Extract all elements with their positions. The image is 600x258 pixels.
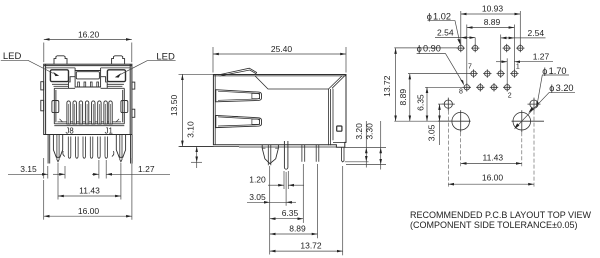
center lines dashed [448, 111, 534, 188]
LED pad L1 [457, 44, 465, 52]
right shield post [131, 135, 133, 164]
pad pin5 [483, 69, 491, 77]
svg-text:25.40: 25.40 [271, 44, 293, 54]
side pin row b [302, 145, 305, 162]
LED post hole left (1.70) [442, 98, 455, 111]
pad pin4 [490, 83, 498, 91]
dimension 2.54 right [501, 35, 546, 71]
dimension 16.00 (pcb) [448, 183, 534, 185]
svg-text:(COMPONENT SIDE TOLERANCE±0.05: (COMPONENT SIDE TOLERANCE±0.05) [410, 220, 577, 230]
contact leg 5 [98, 137, 101, 159]
pad pin8 [463, 83, 471, 91]
svg-text:2: 2 [508, 93, 512, 100]
svg-text:1.20: 1.20 [249, 175, 266, 185]
right wide shield leg [116, 135, 125, 158]
side latch slot left [52, 101, 59, 113]
svg-text:ϕ1.02: ϕ1.02 [427, 12, 451, 22]
dimension 16.20 [44, 39, 132, 62]
dimension 13.72 (pcb vertical) [394, 48, 452, 121]
svg-text:3.20: 3.20 [354, 123, 364, 140]
svg-text:13.72: 13.72 [300, 241, 322, 251]
svg-text:ϕ3.20: ϕ3.20 [549, 83, 573, 93]
front legs [48, 135, 132, 164]
svg-text:2.54: 2.54 [437, 28, 454, 38]
contact leg 6 [105, 137, 108, 159]
dimension 3.20 (side right) [345, 121, 386, 168]
LED label left [1, 51, 59, 76]
side front shield leg [262, 145, 278, 166]
svg-text:6.35: 6.35 [282, 208, 299, 218]
dimension 1.27 (pcb) [496, 58, 553, 84]
svg-text:1.27: 1.27 [533, 52, 550, 62]
pad pin2 [503, 83, 511, 91]
dimension 3.05 (pcb vertical) [438, 104, 444, 145]
dimension 8.89 (pcb vertical) [408, 74, 471, 122]
svg-text:3.30: 3.30 [364, 123, 374, 140]
dimension 3.10 (vertical) [191, 146, 202, 168]
top spring blade [219, 68, 257, 76]
dimension 11.43 (front) [58, 163, 121, 200]
shield side tab upper left [41, 82, 44, 90]
svg-text:J8: J8 [65, 127, 73, 136]
svg-text:1: 1 [516, 63, 520, 70]
dimension 11.43 (pcb) [461, 162, 522, 164]
svg-text:2.54: 2.54 [528, 28, 545, 38]
svg-text:8: 8 [459, 88, 463, 95]
side pin rear [342, 147, 345, 162]
side body outline [213, 75, 346, 148]
front view outer shield body [44, 64, 132, 134]
shield side tab lower right [132, 109, 135, 117]
EMI square hole [337, 126, 342, 131]
top latch bump right [112, 56, 125, 64]
pad pin3 [497, 69, 505, 77]
dimension 2.54 left [435, 38, 475, 45]
svg-text:3.05: 3.05 [427, 124, 437, 141]
roof bevel [255, 75, 346, 146]
LED window sills [52, 84, 124, 86]
contact leg 2 [76, 137, 79, 159]
contact leg 4 [90, 137, 93, 159]
svg-text:8.89: 8.89 [484, 17, 501, 27]
top latch bump left [54, 56, 67, 64]
center latch block [69, 68, 108, 88]
svg-text:13.72: 13.72 [382, 75, 392, 97]
dimension 6.35 (pcb vertical) [425, 87, 464, 121]
svg-text:8.89: 8.89 [398, 89, 408, 106]
dimension 8.89 (pcb) [467, 25, 515, 85]
LED window right [107, 70, 125, 82]
svg-text:11.43: 11.43 [482, 152, 503, 162]
jack mouth opening [54, 88, 124, 125]
svg-text:8.89: 8.89 [289, 224, 306, 234]
dimension 8.89 (side) [270, 164, 318, 238]
dimension 1.20 [268, 171, 304, 189]
side latch slot 1 [216, 90, 262, 102]
svg-text:6.35: 6.35 [415, 94, 425, 111]
contact leg 1 [68, 137, 71, 159]
dimension 3.30 (side right) [346, 121, 386, 170]
svg-text:1.27: 1.27 [138, 164, 155, 174]
pad pin7 [469, 69, 477, 77]
svg-text:J1: J1 [105, 127, 113, 136]
pad pin6 [476, 83, 484, 91]
svg-text:RECOMMENDED P.C.B LAYOUT TOP V: RECOMMENDED P.C.B LAYOUT TOP VIEW [410, 210, 592, 220]
svg-text:16.00: 16.00 [78, 206, 100, 216]
svg-text:3.05: 3.05 [249, 192, 266, 202]
side latch slot right [121, 101, 128, 113]
dimension 25.40 [213, 47, 346, 73]
svg-text:3.10: 3.10 [186, 121, 196, 138]
svg-text:3.15: 3.15 [20, 164, 37, 174]
dimension 3.15 [8, 158, 65, 179]
dimension 1.27 (front) [92, 160, 170, 179]
LED leg hook right [112, 151, 114, 157]
latch teeth [78, 82, 99, 87]
left wide shield leg [53, 135, 62, 158]
shield bottom edge [44, 134, 132, 136]
LED pad R2 [516, 44, 524, 52]
LED window left [50, 70, 68, 82]
side pin row c [316, 145, 319, 162]
svg-text:ϕ1.70: ϕ1.70 [542, 66, 566, 76]
shield side tab lower left [41, 100, 44, 111]
svg-text:11.43: 11.43 [79, 186, 100, 196]
LED pad L2 [471, 44, 479, 52]
svg-text:7: 7 [468, 63, 472, 70]
LED leg hook left [63, 151, 65, 157]
contact springs comb [67, 101, 112, 124]
svg-text:10.93: 10.93 [482, 4, 504, 14]
pad pin1 [510, 69, 518, 77]
svg-text:13.50: 13.50 [169, 94, 179, 116]
shield side tab upper right [132, 82, 135, 89]
shield hole right (3.20) [512, 110, 545, 132]
svg-text:16.00: 16.00 [482, 173, 504, 183]
dimension 16.00 (front) [44, 158, 132, 220]
LED label right [115, 52, 176, 78]
svg-text:16.20: 16.20 [78, 30, 100, 40]
side contact leg (1.20) [284, 141, 288, 169]
shield hole left (3.20) [438, 110, 471, 132]
side latch slot 2 [216, 115, 262, 127]
dimension 10.93 [461, 11, 521, 45]
contact leg 3 [83, 137, 86, 159]
svg-text:ϕ0.90: ϕ0.90 [417, 43, 441, 53]
LED post hole right (1.70) [528, 98, 541, 111]
dimension 3.05 (side) [247, 166, 296, 255]
left shield post [48, 135, 50, 164]
ledge line under top edge [46, 67, 131, 69]
dimension 13.50 (vertical) [179, 74, 214, 146]
dimension 13.72 (side) [270, 166, 343, 255]
dimension 6.35 (side) [270, 164, 304, 223]
LED pad R1 [503, 44, 511, 52]
